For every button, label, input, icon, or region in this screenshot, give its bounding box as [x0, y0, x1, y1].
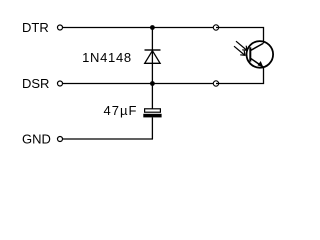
- capacitor C1 top plate (hollow): [145, 109, 161, 112]
- svg-text:GND: GND: [22, 132, 51, 147]
- pin connector on DSR line: [213, 81, 218, 86]
- transistor Q1 emitter arrowhead: [258, 61, 264, 67]
- svg-text:1N4148: 1N4148: [82, 50, 132, 65]
- capacitor C1 bottom plate (filled): [143, 114, 161, 118]
- wire DSR right segment to emitter corner: [216, 67, 264, 84]
- diode D1 triangle: [145, 51, 160, 64]
- wire diode vertical: [151, 28, 153, 84]
- light arrow 2: [234, 46, 245, 55]
- pin DSR terminal: [58, 81, 63, 86]
- wire DTR right segment to collector corner: [216, 28, 264, 44]
- diode D1 1N4148 cathode bar: [145, 49, 161, 51]
- wire GND horizontal: [63, 138, 153, 140]
- svg-text:47µF: 47µF: [104, 103, 138, 118]
- junction dot on DTR at diode: [150, 25, 155, 30]
- transistor Q1 base bar: [249, 47, 251, 61]
- pin GND terminal: [58, 137, 63, 142]
- svg-text:DTR: DTR: [22, 20, 49, 35]
- transistor Q1 emitter diagonal: [251, 59, 264, 68]
- svg-text:DSR: DSR: [22, 76, 49, 91]
- wire DSR horizontal left segment: [63, 83, 213, 85]
- transistor Q1 collector diagonal: [251, 44, 263, 51]
- wire capacitor vertical bottom: [151, 117, 153, 139]
- transistor Q1 phototransistor body circle: [246, 41, 273, 68]
- wire capacitor vertical top: [151, 84, 153, 110]
- wire DTR horizontal left segment: [63, 27, 213, 29]
- light arrow 1: [236, 41, 247, 50]
- pin DTR terminal: [58, 25, 63, 30]
- junction dot on DSR at diode/cap: [150, 81, 155, 86]
- pin connector on DTR line: [213, 25, 218, 30]
